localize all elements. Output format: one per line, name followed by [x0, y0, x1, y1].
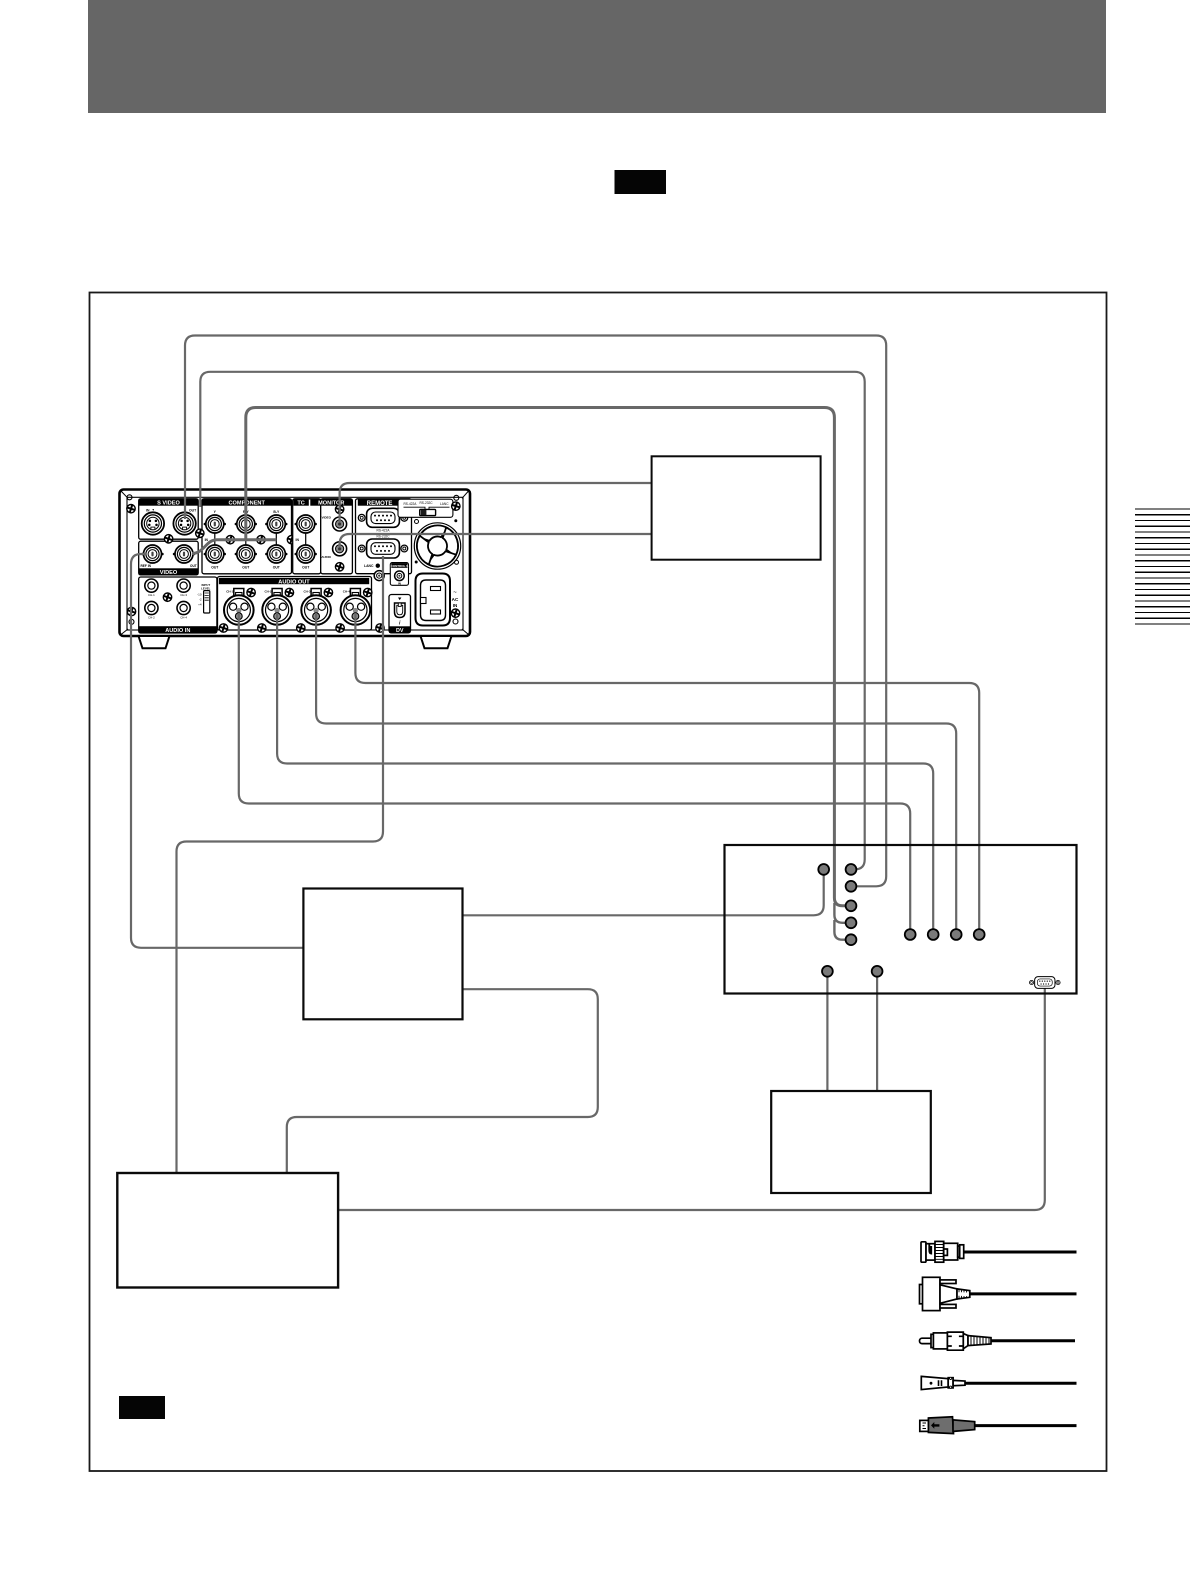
connection dot B [846, 864, 857, 875]
wire MONITOR AUDIO to video monitor box [340, 534, 652, 547]
svg-text:CH-1: CH-1 [226, 590, 233, 594]
connection dot A [818, 864, 829, 875]
connection dot D [846, 900, 857, 911]
svg-text:RS-422A: RS-422A [404, 502, 418, 506]
diagram frame [90, 293, 1107, 1472]
i.LINK connector [395, 603, 406, 618]
screw [375, 623, 385, 633]
screw [450, 608, 460, 618]
connection dot F [846, 934, 857, 945]
svg-text:RS-422A: RS-422A [377, 529, 391, 533]
wire bundle branch to dot F [834, 920, 851, 940]
screw [195, 528, 205, 538]
panel bevel corners [121, 491, 469, 635]
VTR rear panel [120, 490, 471, 649]
svg-text:~: ~ [453, 590, 457, 596]
connector AUDIO IN CH-2 RCA [145, 601, 158, 614]
svg-text:OUT: OUT [190, 564, 197, 568]
svg-text:CH-3: CH-3 [304, 590, 311, 594]
screw [363, 587, 373, 597]
svg-text:LANC: LANC [364, 564, 374, 568]
screw [164, 534, 174, 544]
connector COMPONENT Y OUT BNC [204, 545, 226, 563]
TC section box [293, 499, 321, 574]
legend 9-pin remote cable [920, 1277, 1077, 1310]
reference box (left middle) [303, 889, 462, 1020]
note badge (black) bottom left [119, 1396, 165, 1419]
screw [335, 562, 345, 572]
screw [335, 623, 345, 633]
wire AUDIO OUT CH-4 to dot J [355, 613, 979, 935]
connector TC IN BNC [305, 524, 307, 554]
wire MONITOR VIDEO to video monitor box [340, 483, 652, 522]
REMOTE section box [356, 499, 412, 574]
screw [296, 623, 306, 633]
panel inner face [127, 497, 463, 630]
wire AUDIO OUT CH-1 to dot G [239, 613, 910, 935]
svg-text:OUT: OUT [273, 566, 281, 570]
panel right foot [421, 636, 452, 648]
svg-text:CH-2: CH-2 [148, 615, 155, 619]
connector S VIDEO OUT [173, 512, 195, 534]
svg-text:AC: AC [452, 597, 459, 602]
screw hole [454, 495, 459, 500]
VIDEO section box [139, 541, 199, 575]
connector AUDIO IN CH-3 RCA [177, 579, 190, 592]
screw [126, 606, 136, 616]
connector COMPONENT Y IN BNC [214, 524, 216, 554]
remote select switch assembly [398, 499, 453, 517]
chapter thumb-index stripes right edge [1135, 509, 1190, 624]
svg-text:OUT: OUT [302, 566, 310, 570]
connector MONITOR AUDIO RCA [333, 542, 347, 556]
screw [162, 592, 172, 602]
connector AUDIO OUT CH-2 XLR [262, 589, 292, 625]
svg-text:IN: IN [296, 538, 300, 542]
svg-text:AUDIO: AUDIO [321, 555, 331, 559]
svg-text:OUT: OUT [211, 566, 219, 570]
svg-text:IN: IN [453, 603, 458, 608]
svg-text:RS-232C: RS-232C [420, 501, 434, 505]
connector AUDIO OUT CH-1 XLR [224, 589, 254, 625]
svg-text:+4: +4 [198, 602, 202, 606]
connector COMPONENT B-Y IN BNC [275, 524, 277, 554]
connection dot C [846, 881, 857, 892]
screw [246, 587, 256, 597]
wire dot K to remote control unit [826, 971, 828, 1091]
legend DV (i.LINK) cable [920, 1417, 1077, 1434]
svg-text:B-Y: B-Y [273, 510, 280, 514]
panel left foot [139, 636, 170, 648]
svg-text:OUT: OUT [189, 508, 197, 512]
svg-text:CH-2: CH-2 [265, 590, 272, 594]
editing unit 9-pin remote connector [1029, 977, 1060, 989]
svg-text:CH-3: CH-3 [180, 593, 187, 597]
connector AUDIO IN CH-1 RCA [145, 579, 158, 592]
wire AUDIO OUT CH-2 to dot H [277, 613, 933, 935]
wire reference box to computer box [287, 989, 598, 1173]
connector COMPONENT R-Y IN BNC [245, 524, 247, 554]
component bundle jumper across IN jacks [192, 540, 276, 554]
legend control-s cable [921, 1376, 1076, 1389]
screw [126, 504, 136, 514]
svg-text:-10: -10 [197, 592, 202, 596]
svg-text:-2: -2 [199, 597, 202, 601]
connection dot J [974, 929, 985, 940]
screw [284, 587, 294, 597]
header bar [88, 0, 1106, 113]
screw [225, 535, 235, 545]
screw [451, 501, 461, 511]
screw [256, 535, 266, 545]
connection dot H [928, 929, 939, 940]
svg-text:S VIDEO: S VIDEO [157, 501, 180, 507]
svg-text:AUDIO OUT: AUDIO OUT [278, 579, 310, 585]
video monitor box (top right) [652, 456, 821, 559]
screw hole [127, 495, 132, 500]
connector AUDIO IN CH-4 RCA [177, 601, 190, 614]
svg-text:VIDEO: VIDEO [322, 515, 332, 519]
connection dot G [905, 929, 916, 940]
connection dot L [872, 966, 883, 977]
connector COMPONENT R-Y OUT BNC [235, 545, 257, 563]
connector MONITOR VIDEO RCA [333, 517, 347, 531]
COMPONENT section box [202, 499, 292, 574]
cooling fan [414, 523, 460, 569]
wire S VIDEO IN to editing unit (dot B) [200, 372, 864, 870]
legend BNC cable [921, 1241, 1077, 1262]
MONITOR section box [321, 499, 353, 574]
screw [323, 587, 333, 597]
svg-text:CONTROL S: CONTROL S [391, 564, 409, 568]
editing control unit box (large right) [725, 845, 1077, 994]
wire editing unit D-sub to computer box [338, 987, 1045, 1210]
screw [218, 623, 228, 633]
svg-text:CH-4: CH-4 [180, 615, 187, 619]
svg-text:AUDIO IN: AUDIO IN [165, 628, 190, 634]
connection dot E [846, 917, 857, 928]
connector AUDIO OUT CH-3 XLR [301, 589, 331, 625]
switch slider [420, 509, 436, 515]
connector COMPONENT B-Y OUT BNC [265, 545, 287, 563]
CONTROL S box [390, 563, 408, 586]
connector VIDEO OUT BNC [173, 545, 195, 563]
connector AUDIO OUT CH-4 XLR [341, 589, 371, 625]
connector REMOTE RS-232C D-sub [358, 539, 407, 558]
S VIDEO section box [139, 499, 199, 539]
wire AUDIO OUT CH-3 to dot I [316, 613, 956, 935]
svg-text:REMOTE: REMOTE [367, 501, 393, 507]
wire S VIDEO OUT to editing unit (dot C) [185, 336, 886, 887]
svg-text:CH-4: CH-4 [343, 590, 350, 594]
DV (i.LINK) box [389, 595, 411, 633]
svg-text:REF IN: REF IN [141, 564, 152, 568]
AC IN power inlet [416, 574, 451, 626]
svg-text:OUT: OUT [242, 566, 250, 570]
svg-text:CH-1: CH-1 [148, 593, 155, 597]
wire RS-232C to computer box [177, 556, 384, 1174]
connector TC OUT BNC [295, 545, 317, 563]
panel outer casing [120, 490, 471, 637]
wire reference box to editing unit (dot A) [462, 869, 824, 915]
svg-text:IN: IN [146, 508, 150, 512]
connector REMOTE RS-422A D-sub [358, 508, 407, 527]
wire VIDEO REF IN to reference box [131, 554, 304, 948]
AUDIO IN section box [139, 577, 217, 633]
CONTROL S IN jack [395, 571, 405, 581]
svg-text:VIDEO: VIDEO [160, 570, 178, 576]
legend phono (RCA) cable [920, 1332, 1076, 1350]
computer box (bottom left) [117, 1173, 338, 1288]
connection dot K [822, 966, 833, 977]
section badge (black) top [615, 170, 667, 194]
svg-text:TC: TC [297, 501, 304, 507]
connector S VIDEO IN [142, 512, 164, 534]
connector VIDEO REF IN BNC [141, 545, 163, 563]
screw [257, 623, 267, 633]
svg-text:IN: IN [205, 538, 209, 542]
connection dot I [951, 929, 962, 940]
screw [335, 504, 345, 514]
screw hole [453, 619, 458, 624]
AUDIO OUT section box [218, 577, 372, 631]
svg-text:LANC: LANC [440, 502, 449, 506]
wire component bundle to editing unit (dot D) [246, 408, 851, 906]
screw hole [129, 619, 134, 624]
svg-text:DV: DV [396, 628, 404, 634]
svg-text:IN: IN [398, 582, 401, 586]
wire bundle branch to dot E [834, 903, 851, 923]
screw [286, 535, 296, 545]
remote control unit box (bottom middle right) [771, 1091, 931, 1193]
wire dot L to remote control unit [876, 971, 878, 1091]
